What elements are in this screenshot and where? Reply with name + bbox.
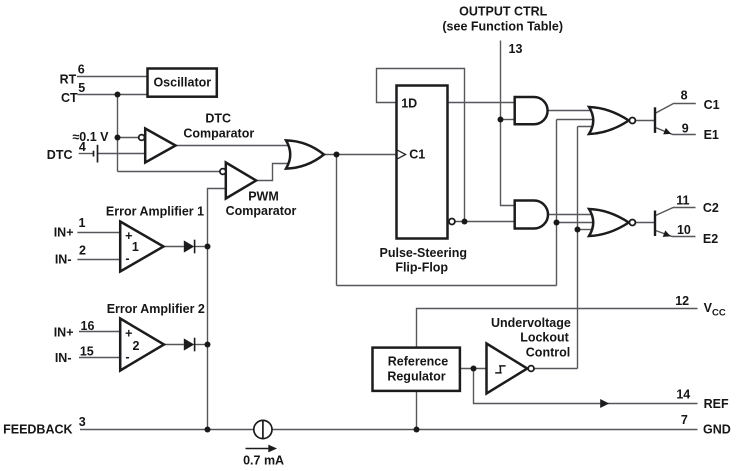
wire reference regulator output to UVLO input	[460, 368, 487, 370]
transistor Q2 emitter arrow	[663, 230, 671, 237]
UVLO buffer U11	[487, 344, 528, 394]
wire error amplifier 1 output to diode D1	[164, 246, 184, 248]
label OUTPUT CTRL	[442, 4, 563, 33]
svg-text:IN+: IN+	[54, 226, 74, 240]
DTC comparator inverting bubble	[139, 135, 145, 141]
wire diode D2 to feedback bus	[195, 344, 208, 346]
NOR gate U9	[589, 107, 629, 134]
wire IN- pin 15 to error amplifier 2	[79, 357, 121, 359]
node UVLO riser junction	[575, 227, 581, 233]
svg-text:6: 6	[78, 63, 85, 77]
node CT junction	[115, 92, 121, 98]
wire IN- pin 2 to error amplifier 1	[77, 259, 120, 261]
wire Q2 emitter to pin 10	[656, 231, 696, 237]
wire OR gate output to flip-flop C1 clock input	[324, 154, 397, 156]
svg-text:Undervoltage: Undervoltage	[491, 316, 571, 330]
svg-text:Oscillator: Oscillator	[153, 75, 211, 89]
wire PWM comparator output to OR gate	[256, 164, 292, 181]
node OR gate output	[334, 152, 340, 158]
wire Q1 collector to pin 8	[656, 104, 696, 114]
node regulator ground junction	[414, 427, 420, 433]
wire comparator signal branch into NOR2 input	[557, 222, 598, 224]
node Qbar feedback junction	[462, 219, 468, 225]
wire reference regulator to ground line	[416, 391, 418, 430]
REF line arrow	[600, 399, 609, 408]
svg-text:15: 15	[80, 345, 94, 359]
node error amplifier 1 output	[205, 244, 211, 250]
wire FEEDBACK pin 3 to current source	[80, 429, 254, 431]
transistor Q1 emitter arrow	[663, 128, 671, 134]
reference regulator block	[373, 348, 460, 391]
wire UVLO signal branch into NOR2 input	[578, 229, 594, 231]
svg-text:-: -	[125, 251, 129, 265]
svg-text:Reference: Reference	[388, 354, 448, 368]
svg-text:DTC: DTC	[47, 148, 73, 162]
label PWM Comparator	[226, 190, 297, 218]
wire error amplifier 2 output to diode D2	[164, 344, 184, 346]
error amplifier 1 U3	[120, 222, 163, 272]
svg-text:+: +	[125, 327, 132, 341]
wire flip-flop Qbar output to AND2 input	[455, 221, 515, 223]
svg-text:DTC: DTC	[205, 111, 231, 125]
svg-text:13: 13	[509, 42, 523, 56]
wire feedback bus vertical to PWM comparator input	[208, 189, 226, 430]
wire NOR1 output to Q1 base	[635, 120, 654, 122]
flip-flop clock triangle	[397, 150, 406, 159]
svg-text:REF: REF	[704, 397, 729, 411]
current source 0.7mA	[254, 420, 272, 438]
diode D1	[184, 240, 195, 254]
svg-text:16: 16	[81, 319, 95, 333]
wire comparator signal drop from OR output node	[336, 155, 338, 286]
diode D2	[184, 338, 195, 352]
wire DTC comparator output to OR gate	[176, 145, 292, 147]
current direction arrow	[246, 445, 278, 453]
svg-text:3: 3	[79, 415, 86, 429]
node sawtooth to DTC comparator	[115, 135, 121, 141]
svg-text:-: -	[125, 350, 129, 364]
svg-text:IN+: IN+	[54, 325, 74, 339]
wire AND1 output to NOR1 input	[548, 110, 597, 112]
svg-text:FEEDBACK: FEEDBACK	[3, 423, 72, 437]
wire DTC pin 4 to battery	[79, 153, 93, 155]
svg-text:2: 2	[79, 244, 86, 258]
svg-text:PWM: PWM	[248, 190, 279, 204]
DTC comparator U1	[145, 129, 175, 163]
svg-text:Pulse-Steering: Pulse-Steering	[380, 246, 468, 260]
wire IN+ pin 1 to error amplifier 1	[77, 232, 120, 234]
oscillator block	[148, 69, 217, 97]
wire RT pin 6 to oscillator	[77, 76, 148, 78]
label Undervoltage Lockout Control	[491, 316, 571, 360]
AND gate U7	[515, 97, 548, 124]
NOR gate U10 output bubble	[629, 220, 635, 226]
svg-text:5: 5	[78, 81, 85, 95]
wire flip-flop Q output to AND1 input	[448, 102, 516, 104]
svg-text:7: 7	[681, 413, 688, 427]
battery 0.1V short plate	[93, 151, 95, 157]
svg-text:8: 8	[681, 88, 688, 102]
wire comparator signal into NOR1 input	[557, 119, 598, 121]
wire comparator signal bottom run	[337, 285, 557, 287]
label VCC	[704, 301, 726, 318]
wire REF output pin 14	[474, 369, 698, 404]
svg-text:GND: GND	[703, 423, 731, 437]
PWM comparator U2	[226, 163, 256, 199]
svg-text:OUTPUT CTRL: OUTPUT CTRL	[459, 4, 548, 18]
wire flip-flop feedback loop Qbar to 1D input	[377, 69, 465, 222]
svg-text:11: 11	[676, 193, 689, 207]
svg-text:C1: C1	[409, 147, 425, 161]
svg-text:C2: C2	[703, 201, 719, 215]
svg-text:CT: CT	[61, 91, 78, 105]
svg-text:Control: Control	[526, 345, 570, 359]
wire OUTPUT CTRL branch to AND1 input	[501, 119, 516, 121]
svg-text:1D: 1D	[401, 97, 417, 111]
wire sawtooth branch to PWM comparator inverting input	[118, 171, 221, 173]
transistor Q1 base bar	[654, 107, 656, 133]
wire sawtooth branch to DTC comparator inverting input	[118, 137, 140, 139]
svg-text:Lockout: Lockout	[520, 330, 569, 344]
wire IN+ pin 16 to error amplifier 2	[79, 331, 121, 333]
wire CT sawtooth bus vertical	[117, 95, 119, 172]
svg-text:E2: E2	[703, 232, 718, 246]
wire OUTPUT CTRL pin 13 down to AND2 input	[501, 41, 516, 206]
svg-text:2: 2	[133, 339, 140, 353]
node comparator riser junction	[554, 220, 560, 226]
svg-text:9: 9	[682, 121, 689, 135]
svg-text:0.7 mA: 0.7 mA	[243, 454, 284, 468]
wire UVLO signal riser to NOR gates	[577, 127, 579, 369]
svg-text:Regulator: Regulator	[387, 369, 445, 383]
node feedback line junction	[205, 427, 211, 433]
wire Q2 collector to pin 11	[656, 208, 696, 216]
wire Q1 emitter to pin 9	[656, 128, 696, 135]
wire NOR2 output to Q2 base	[635, 222, 654, 224]
wire VCC pin 12 to reference regulator	[417, 309, 698, 348]
battery 0.1V tall plate	[97, 145, 99, 163]
wire comparator signal riser to NOR gates	[556, 120, 558, 286]
transistor Q2 base bar	[654, 211, 656, 237]
UVLO output bubble	[528, 366, 534, 372]
svg-text:IN-: IN-	[55, 253, 72, 267]
svg-text:12: 12	[675, 294, 689, 308]
node regulator output junction	[471, 366, 477, 372]
svg-text:Comparator: Comparator	[226, 204, 297, 218]
wire AND2 output to NOR2 input	[548, 214, 596, 216]
wire diode D1 to feedback bus	[195, 246, 208, 248]
NOR gate U10	[589, 209, 629, 236]
node output ctrl junction	[498, 117, 504, 123]
svg-text:RT: RT	[60, 72, 77, 86]
svg-text:Comparator: Comparator	[183, 127, 254, 141]
svg-text:E1: E1	[704, 128, 719, 142]
svg-text:C1: C1	[704, 98, 720, 112]
wire UVLO signal into NOR1 input	[578, 126, 596, 128]
svg-text:Error Amplifier 2: Error Amplifier 2	[107, 302, 205, 316]
svg-text:CC: CC	[712, 307, 726, 318]
svg-text:Flip-Flop: Flip-Flop	[395, 260, 448, 274]
wire battery to DTC comparator input	[98, 153, 146, 155]
wire current source to GND pin 7	[272, 429, 698, 431]
pulse-steering flip-flop U6	[397, 86, 448, 239]
flip-flop Qbar bubble	[449, 219, 455, 225]
label DTC Comparator	[183, 111, 254, 140]
OR gate U5	[286, 140, 324, 168]
svg-text:IN-: IN-	[55, 351, 72, 365]
svg-text:14: 14	[676, 388, 690, 402]
svg-text:1: 1	[79, 216, 86, 230]
AND gate U8	[515, 201, 548, 229]
svg-text:1: 1	[132, 240, 139, 254]
PWM comparator inverting bubble	[220, 169, 226, 175]
error amplifier 2 U4	[120, 319, 164, 371]
node error amplifier 2 output	[205, 342, 211, 348]
label Pulse-Steering Flip-Flop	[380, 246, 468, 274]
svg-text:4: 4	[79, 140, 86, 154]
NOR gate U9 output bubble	[629, 118, 635, 124]
svg-text:Error Amplifier 1: Error Amplifier 1	[106, 205, 204, 219]
wire UVLO output to riser	[534, 368, 578, 370]
svg-text:(see Function Table): (see Function Table)	[442, 19, 563, 33]
wire CT pin 5 to oscillator	[78, 94, 148, 96]
svg-text:10: 10	[677, 223, 691, 237]
